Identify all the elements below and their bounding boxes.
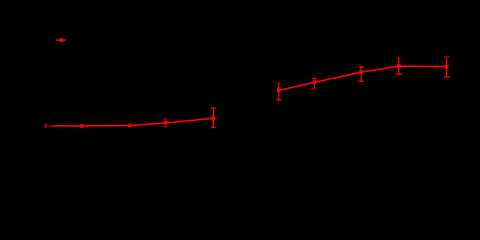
error bar R1 <box>276 83 281 100</box>
left series line <box>82 118 214 126</box>
left series line segment 1 (fading in) <box>46 125 82 127</box>
right series line <box>279 66 447 90</box>
marker L4 <box>164 121 168 125</box>
marker R1 <box>277 89 281 93</box>
error bar R5 <box>444 57 450 77</box>
marker L2 <box>80 124 84 128</box>
error bar R3 <box>358 67 363 81</box>
marker L3 <box>128 124 132 128</box>
marker R4 <box>397 64 401 68</box>
legend marker <box>56 39 66 42</box>
marker L5 <box>211 116 215 120</box>
marker R5 <box>445 65 449 69</box>
marker R3 <box>359 70 363 74</box>
error bar L5 <box>211 108 216 127</box>
marker L1 (dim) <box>44 124 47 127</box>
error bar R2 <box>312 78 317 88</box>
error bar R4 <box>395 58 402 74</box>
error bar L4 (dim caps) <box>163 119 168 127</box>
marker R2 <box>313 81 317 85</box>
error bar L1 (dim) <box>44 124 47 127</box>
